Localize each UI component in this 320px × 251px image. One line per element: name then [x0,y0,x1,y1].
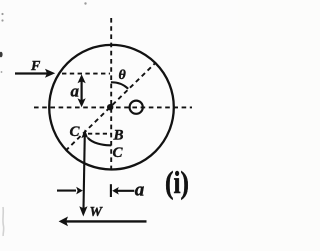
svg-text:W: W [90,205,104,220]
svg-text:C: C [113,145,124,161]
center dot [107,104,113,110]
force F arrow [15,69,55,78]
svg-text:(i): (i) [165,164,189,200]
svg-text:C: C [70,124,81,140]
svg-text:θ: θ [119,68,127,83]
dashed line C to B [88,133,111,135]
horizontal centerline (dashed) [34,106,192,108]
disc (main circle) [49,45,174,170]
dimension a left arrow [112,187,134,195]
svg-text:B: B [113,128,124,144]
svg-text:a: a [135,180,145,201]
weight line W [79,129,88,216]
diagonal 45-degree dashed line [66,63,156,151]
right-pointing arrow to weight line [57,187,83,195]
scan artifact: left edge marks [0,52,3,58]
small hole circle [130,101,143,114]
long left arrow (bottom) [59,217,147,227]
svg-text:a: a [71,82,80,101]
dimension a (vertical double arrow) [78,74,86,107]
dashed line at force level [62,73,110,75]
theta angle arc [111,82,128,88]
angle arc at C with arrowhead [88,138,111,146]
dimension a tick [110,184,112,197]
svg-text:F: F [30,59,41,74]
vertical centerline (dashed) [110,18,112,170]
scan artifact: lower-left faint smudge [2,207,5,236]
